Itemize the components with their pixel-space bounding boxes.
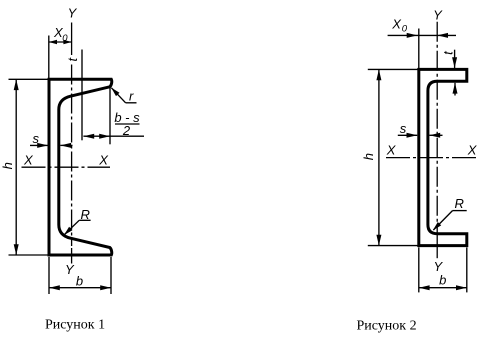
svg-text:2: 2: [122, 123, 131, 138]
svg-text:h: h: [0, 162, 15, 169]
svg-text:R: R: [455, 196, 464, 211]
svg-text:Y: Y: [433, 7, 443, 22]
svg-text:0: 0: [402, 24, 408, 35]
svg-text:Y: Y: [68, 5, 78, 20]
svg-text:0: 0: [62, 33, 68, 44]
svg-text:Рисунок 1: Рисунок 1: [45, 318, 105, 333]
svg-text:r: r: [129, 88, 134, 103]
svg-text:Рисунок 2: Рисунок 2: [357, 318, 417, 333]
svg-text:Y: Y: [65, 262, 75, 277]
svg-text:h: h: [361, 153, 376, 160]
svg-text:X: X: [386, 143, 397, 158]
svg-text:R: R: [81, 207, 90, 222]
svg-text:X: X: [23, 152, 34, 167]
svg-text:b: b: [76, 273, 83, 288]
svg-text:X: X: [98, 152, 109, 167]
svg-text:b: b: [439, 272, 446, 287]
svg-text:X: X: [467, 143, 478, 158]
svg-text:X: X: [391, 17, 402, 32]
svg-text:s: s: [400, 121, 407, 136]
